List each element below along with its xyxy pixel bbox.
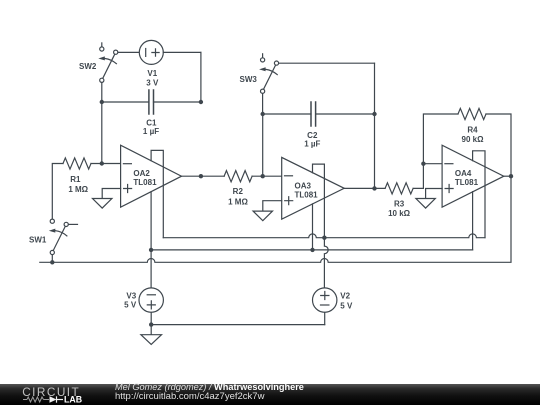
junction C2 right node xyxy=(372,112,376,116)
svg-text:SW3: SW3 xyxy=(240,75,258,84)
OA4 V- pin wire down to rail2 corner xyxy=(472,192,474,250)
svg-text:5 V: 5 V xyxy=(340,302,353,311)
footer text xyxy=(115,382,304,392)
voltage source V1 xyxy=(139,40,201,64)
wire cap row 1 xyxy=(102,101,201,103)
svg-text:10 kΩ: 10 kΩ xyxy=(388,209,411,218)
ground at OA3 + input xyxy=(253,201,282,221)
svg-text:1 µF: 1 µF xyxy=(143,127,159,136)
svg-text:R4: R4 xyxy=(467,126,478,135)
wire OA4 output xyxy=(504,175,511,177)
OA4 V+ pin stub and bridge xyxy=(473,151,485,238)
junction C2 left / SW3 pole node xyxy=(261,112,265,116)
junction R2 / OA3 inverting input node xyxy=(261,174,265,178)
switch SW1 xyxy=(49,219,78,262)
wire C1-left down to R1 node xyxy=(101,102,103,164)
ground at OA2 + input xyxy=(93,189,121,209)
svg-text:V2: V2 xyxy=(340,291,350,300)
switch SW2 xyxy=(98,43,139,102)
junction OA2 V- wire / rail 2 xyxy=(149,248,153,252)
svg-text:TL081: TL081 xyxy=(295,191,319,200)
svg-text:5 V: 5 V xyxy=(124,301,137,310)
capacitor C1 xyxy=(149,90,154,114)
svg-text:1 µF: 1 µF xyxy=(304,139,320,148)
svg-text:OA4: OA4 xyxy=(455,169,472,178)
capacitor C2 xyxy=(311,102,316,126)
resistor R1 xyxy=(63,158,91,169)
ground at OA4 + input xyxy=(416,189,442,209)
main ground symbol xyxy=(141,325,162,345)
wire R4 right corner down to output xyxy=(486,114,511,176)
svg-text:TL081: TL081 xyxy=(455,178,479,187)
junction OA2 output node xyxy=(199,174,203,178)
wire OA3 minus node up to C2 xyxy=(262,114,264,176)
wire R1 left + corner down to SW1 xyxy=(52,164,63,220)
svg-text:90 kΩ: 90 kΩ xyxy=(462,135,485,144)
svg-text:OA2: OA2 xyxy=(133,169,150,178)
junction C1 right / V1 node xyxy=(199,100,203,104)
wire V1 right corner down xyxy=(200,52,202,102)
voltage source V2 xyxy=(313,288,337,325)
svg-text:V1: V1 xyxy=(147,69,157,78)
OA2 V+ pin stub and bridge xyxy=(151,150,163,237)
junction R3 / R4 / OA4 inverting input node xyxy=(421,162,425,166)
wire SW3 throw right corner down to C2 right xyxy=(374,63,376,114)
svg-text:R3: R3 xyxy=(394,200,405,209)
svg-text:SW1: SW1 xyxy=(29,236,47,245)
resistor R4 xyxy=(458,108,486,119)
svg-text:R2: R2 xyxy=(233,187,244,196)
wire from OA3 bridge down to V2 with hop over rail2 xyxy=(324,238,328,288)
wire OA4 minus node to op-amp xyxy=(423,163,442,165)
junction V3 minus / ground node xyxy=(149,322,153,326)
svg-text:3 V: 3 V xyxy=(146,78,159,87)
OA3 V+ pin stub and bridge xyxy=(313,164,325,238)
svg-text:OA3: OA3 xyxy=(295,181,312,190)
rail 1 (V+ supply) with hops xyxy=(163,234,485,238)
junction OA3 bridge wire / rail 1 xyxy=(322,236,326,240)
wire cap row 2 xyxy=(263,113,375,115)
op-amp OA4 xyxy=(442,145,504,207)
switch SW3 xyxy=(259,54,374,114)
resistor R2 xyxy=(224,171,252,182)
voltage source V3 xyxy=(139,288,163,325)
rail 2 (V- supply) xyxy=(151,249,473,251)
junction SW1 pole / rail 3 xyxy=(50,260,54,264)
ground rail at bottom xyxy=(151,324,325,326)
wire C2 right down to OA3 output xyxy=(374,114,376,188)
junction OA3 V- wire / rail 2 xyxy=(310,248,314,252)
footer bar xyxy=(0,384,540,405)
wire OA4 minus node up to R4 xyxy=(423,114,458,164)
svg-text:1 MΩ: 1 MΩ xyxy=(228,197,248,206)
OA2 V- pin wire down to V3 xyxy=(150,192,152,288)
resistor R3 xyxy=(385,183,413,194)
wire R2 right to OA3 minus xyxy=(252,175,282,177)
wire R1 right to op-amp minus xyxy=(91,163,121,165)
junction OA3 output node xyxy=(372,186,376,190)
svg-text:R1: R1 xyxy=(70,175,81,184)
op-amp OA3 xyxy=(282,157,345,219)
svg-text:V3: V3 xyxy=(126,292,136,301)
wire R3 right corner up to OA4 minus node xyxy=(413,164,423,189)
wire OA3 output row xyxy=(344,187,385,189)
svg-text:1 MΩ: 1 MΩ xyxy=(68,185,88,194)
junction C1 left / SW2 pole node xyxy=(100,100,104,104)
svg-text:TL081: TL081 xyxy=(133,178,157,187)
op-amp OA2 xyxy=(121,145,182,207)
wire OA2 output row xyxy=(182,175,225,177)
junction R1 / OA2 inverting input node xyxy=(100,161,104,165)
rail 3 (feedback) with hops, corner up to OA4 output xyxy=(40,176,511,262)
OA3 V- pin wire down to rail2 xyxy=(312,204,314,250)
junction OA4 output node xyxy=(509,174,513,178)
svg-text:SW2: SW2 xyxy=(79,62,97,71)
